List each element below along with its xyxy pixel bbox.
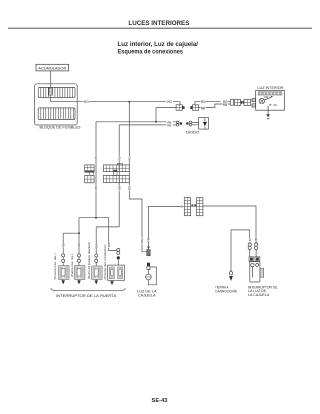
- door switch column 3: [95, 248, 97, 280]
- wire C drop (trunk feed): [129, 102, 142, 199]
- fuse row bottom: [38, 108, 75, 120]
- body ground symbol: [229, 272, 232, 275]
- svg-text:RG: RG: [140, 238, 144, 243]
- svg-text:RB: RB: [117, 186, 121, 190]
- title rule: [8, 27, 312, 29]
- bullet connector pair diode left: [176, 121, 179, 124]
- trunk switch connectors: [249, 257, 254, 262]
- wire B drop: [118, 125, 120, 227]
- door switch 4 body: [108, 265, 125, 280]
- diode D1: [199, 118, 209, 130]
- svg-text:(Puerta tras. der.): (Puerta tras. der.): [53, 254, 57, 280]
- col3 drop: [95, 227, 97, 244]
- switch lever: [264, 97, 272, 101]
- bar1 distribution: [79, 217, 109, 219]
- harness connector right row1: [103, 165, 129, 172]
- harness connector right row2: [103, 175, 129, 182]
- switch pin to ground: [267, 106, 269, 115]
- svg-text:DIODO: DIODO: [186, 131, 200, 135]
- fuse block outline: [35, 84, 78, 125]
- lamp terminal stubs: [252, 99, 256, 102]
- door switch 1 body: [59, 266, 69, 280]
- svg-text:CARROCERÍA: CARROCERÍA: [215, 290, 238, 294]
- OFF contact: [271, 96, 273, 97]
- svg-text:RB: RB: [223, 103, 227, 107]
- ground arrow sw2: [78, 279, 80, 282]
- svg-text:ACUMULADOR: ACUMULADOR: [38, 67, 66, 71]
- harness connector left row2: [85, 175, 94, 182]
- wire C1 to lamp top: [195, 102, 231, 105]
- svg-text:BLOQUE DE FUSIBLES: BLOQUE DE FUSIBLES: [40, 126, 82, 130]
- svg-text:RB: RB: [61, 243, 65, 247]
- svg-text:RB: RB: [107, 243, 111, 247]
- door switch 3 body: [92, 266, 102, 279]
- bulb: [259, 98, 264, 103]
- inline connector trunk: [147, 246, 150, 249]
- ground arrow sw3: [95, 279, 97, 280]
- bar1 right drop to sw4: [108, 218, 110, 243]
- harness connector left row1: [85, 165, 94, 172]
- ground arrow lamp: [266, 114, 269, 117]
- fuse row top: [38, 87, 75, 97]
- svg-text:RG: RG: [167, 100, 172, 104]
- svg-text:(Puerta del conductor): (Puerta del conductor): [103, 245, 107, 280]
- svg-text:RB: RB: [167, 124, 171, 128]
- trunk switch column: [255, 242, 257, 257]
- svg-text:B: B: [248, 239, 252, 241]
- brace door switches: [51, 288, 126, 291]
- wire main bus: [89, 101, 166, 103]
- latch tab left pair: [90, 172, 94, 175]
- latch tab top: [117, 163, 122, 165]
- wire fuse to main bus: [51, 95, 84, 102]
- trunk switch ground branch: [231, 230, 250, 269]
- door switch column 1: [62, 247, 64, 279]
- wire door bus horizontal 2: [119, 124, 176, 126]
- svg-text:RB: RB: [147, 238, 151, 242]
- latch trapezoid middle: [113, 170, 118, 172]
- lamp legend hatched bar: [258, 92, 282, 95]
- junction riser on door bus: [155, 121, 157, 123]
- wire return riser into C1: [156, 108, 176, 122]
- trunk lamp loop: [148, 267, 156, 285]
- svg-text:RB: RB: [94, 244, 98, 248]
- bar1 left drop: [78, 218, 80, 234]
- svg-text:(Puerta tras. izq.): (Puerta tras. izq.): [70, 254, 74, 277]
- svg-text:RB: RB: [77, 243, 81, 247]
- wire battery to fuse block: [50, 71, 52, 88]
- connector C1 left half: [176, 105, 182, 111]
- svg-text:LUCES INTERIORES: LUCES INTERIORES: [128, 20, 189, 27]
- svg-text:Luz interior, Luz de cajuela/: Luz interior, Luz de cajuela/: [118, 41, 199, 48]
- ground arrow sw1: [62, 279, 64, 282]
- svg-text:(Puerta del pasajero delantero: (Puerta del pasajero delantero): [87, 242, 91, 279]
- svg-text:LA CAJUELA: LA CAJUELA: [248, 293, 270, 297]
- trunk return wire: [149, 206, 181, 246]
- ON contact: [269, 104, 272, 106]
- svg-text:RG: RG: [128, 185, 132, 190]
- wire into diode: [192, 122, 199, 124]
- svg-text:RG: RG: [84, 100, 89, 104]
- door switch column 2: [78, 247, 80, 279]
- door switch column 4 wire: [109, 248, 117, 251]
- svg-text:Esquema de conexiones: Esquema de conexiones: [118, 49, 184, 56]
- connector grid pair trunk: [183, 206, 256, 238]
- svg-text:RB: RB: [94, 186, 98, 190]
- bar2 from wire B: [96, 226, 119, 228]
- wire A drop (door sw feed): [95, 122, 97, 218]
- svg-text:ON: ON: [273, 105, 277, 107]
- connector dot sw4: [117, 256, 120, 259]
- bar3: [63, 232, 79, 234]
- junction bus to door/diode drop: [128, 101, 130, 103]
- svg-text:SE-43: SE-43: [152, 398, 169, 404]
- trunk lamp bulb: [147, 270, 149, 275]
- wire C1 to lamp bottom: [199, 104, 231, 108]
- svg-text:CAJUELA: CAJUELA: [138, 293, 156, 297]
- battery label box ACUMULADOR: [36, 64, 69, 71]
- svg-text:RB: RB: [201, 107, 205, 111]
- svg-text:LUZ INTERIOR: LUZ INTERIOR: [257, 86, 283, 90]
- svg-text:B: B: [181, 205, 183, 209]
- svg-text:RB: RB: [254, 238, 258, 242]
- trunk lamp connector: [147, 263, 150, 267]
- svg-text:RG: RG: [128, 156, 132, 161]
- connector C2 small: [230, 100, 233, 106]
- svg-text:RB: RB: [94, 157, 98, 161]
- svg-text:OFF: OFF: [264, 97, 269, 99]
- col1 drop: [62, 233, 64, 243]
- col2 drop: [78, 233, 80, 243]
- door switch 2 body: [75, 266, 85, 280]
- trunk switch body: [250, 262, 260, 283]
- trunk feed drop: [142, 199, 147, 252]
- fuse in use: [49, 88, 53, 95]
- svg-text:INTERRUPTOR DE LA PUERTA: INTERRUPTOR DE LA PUERTA: [56, 293, 117, 298]
- connector C1 right half: [193, 105, 199, 111]
- svg-text:RB: RB: [117, 157, 121, 161]
- svg-text:B: B: [229, 269, 233, 271]
- bullet connector pair diode right: [186, 122, 188, 124]
- interior lamp box: [256, 90, 285, 110]
- wire bus into connector C1: [173, 102, 180, 105]
- ground arrow sw4: [111, 280, 113, 281]
- connector C3 pair: [235, 99, 241, 105]
- wire door bus horizontal 1: [96, 121, 176, 123]
- svg-text:RG: RG: [201, 100, 206, 104]
